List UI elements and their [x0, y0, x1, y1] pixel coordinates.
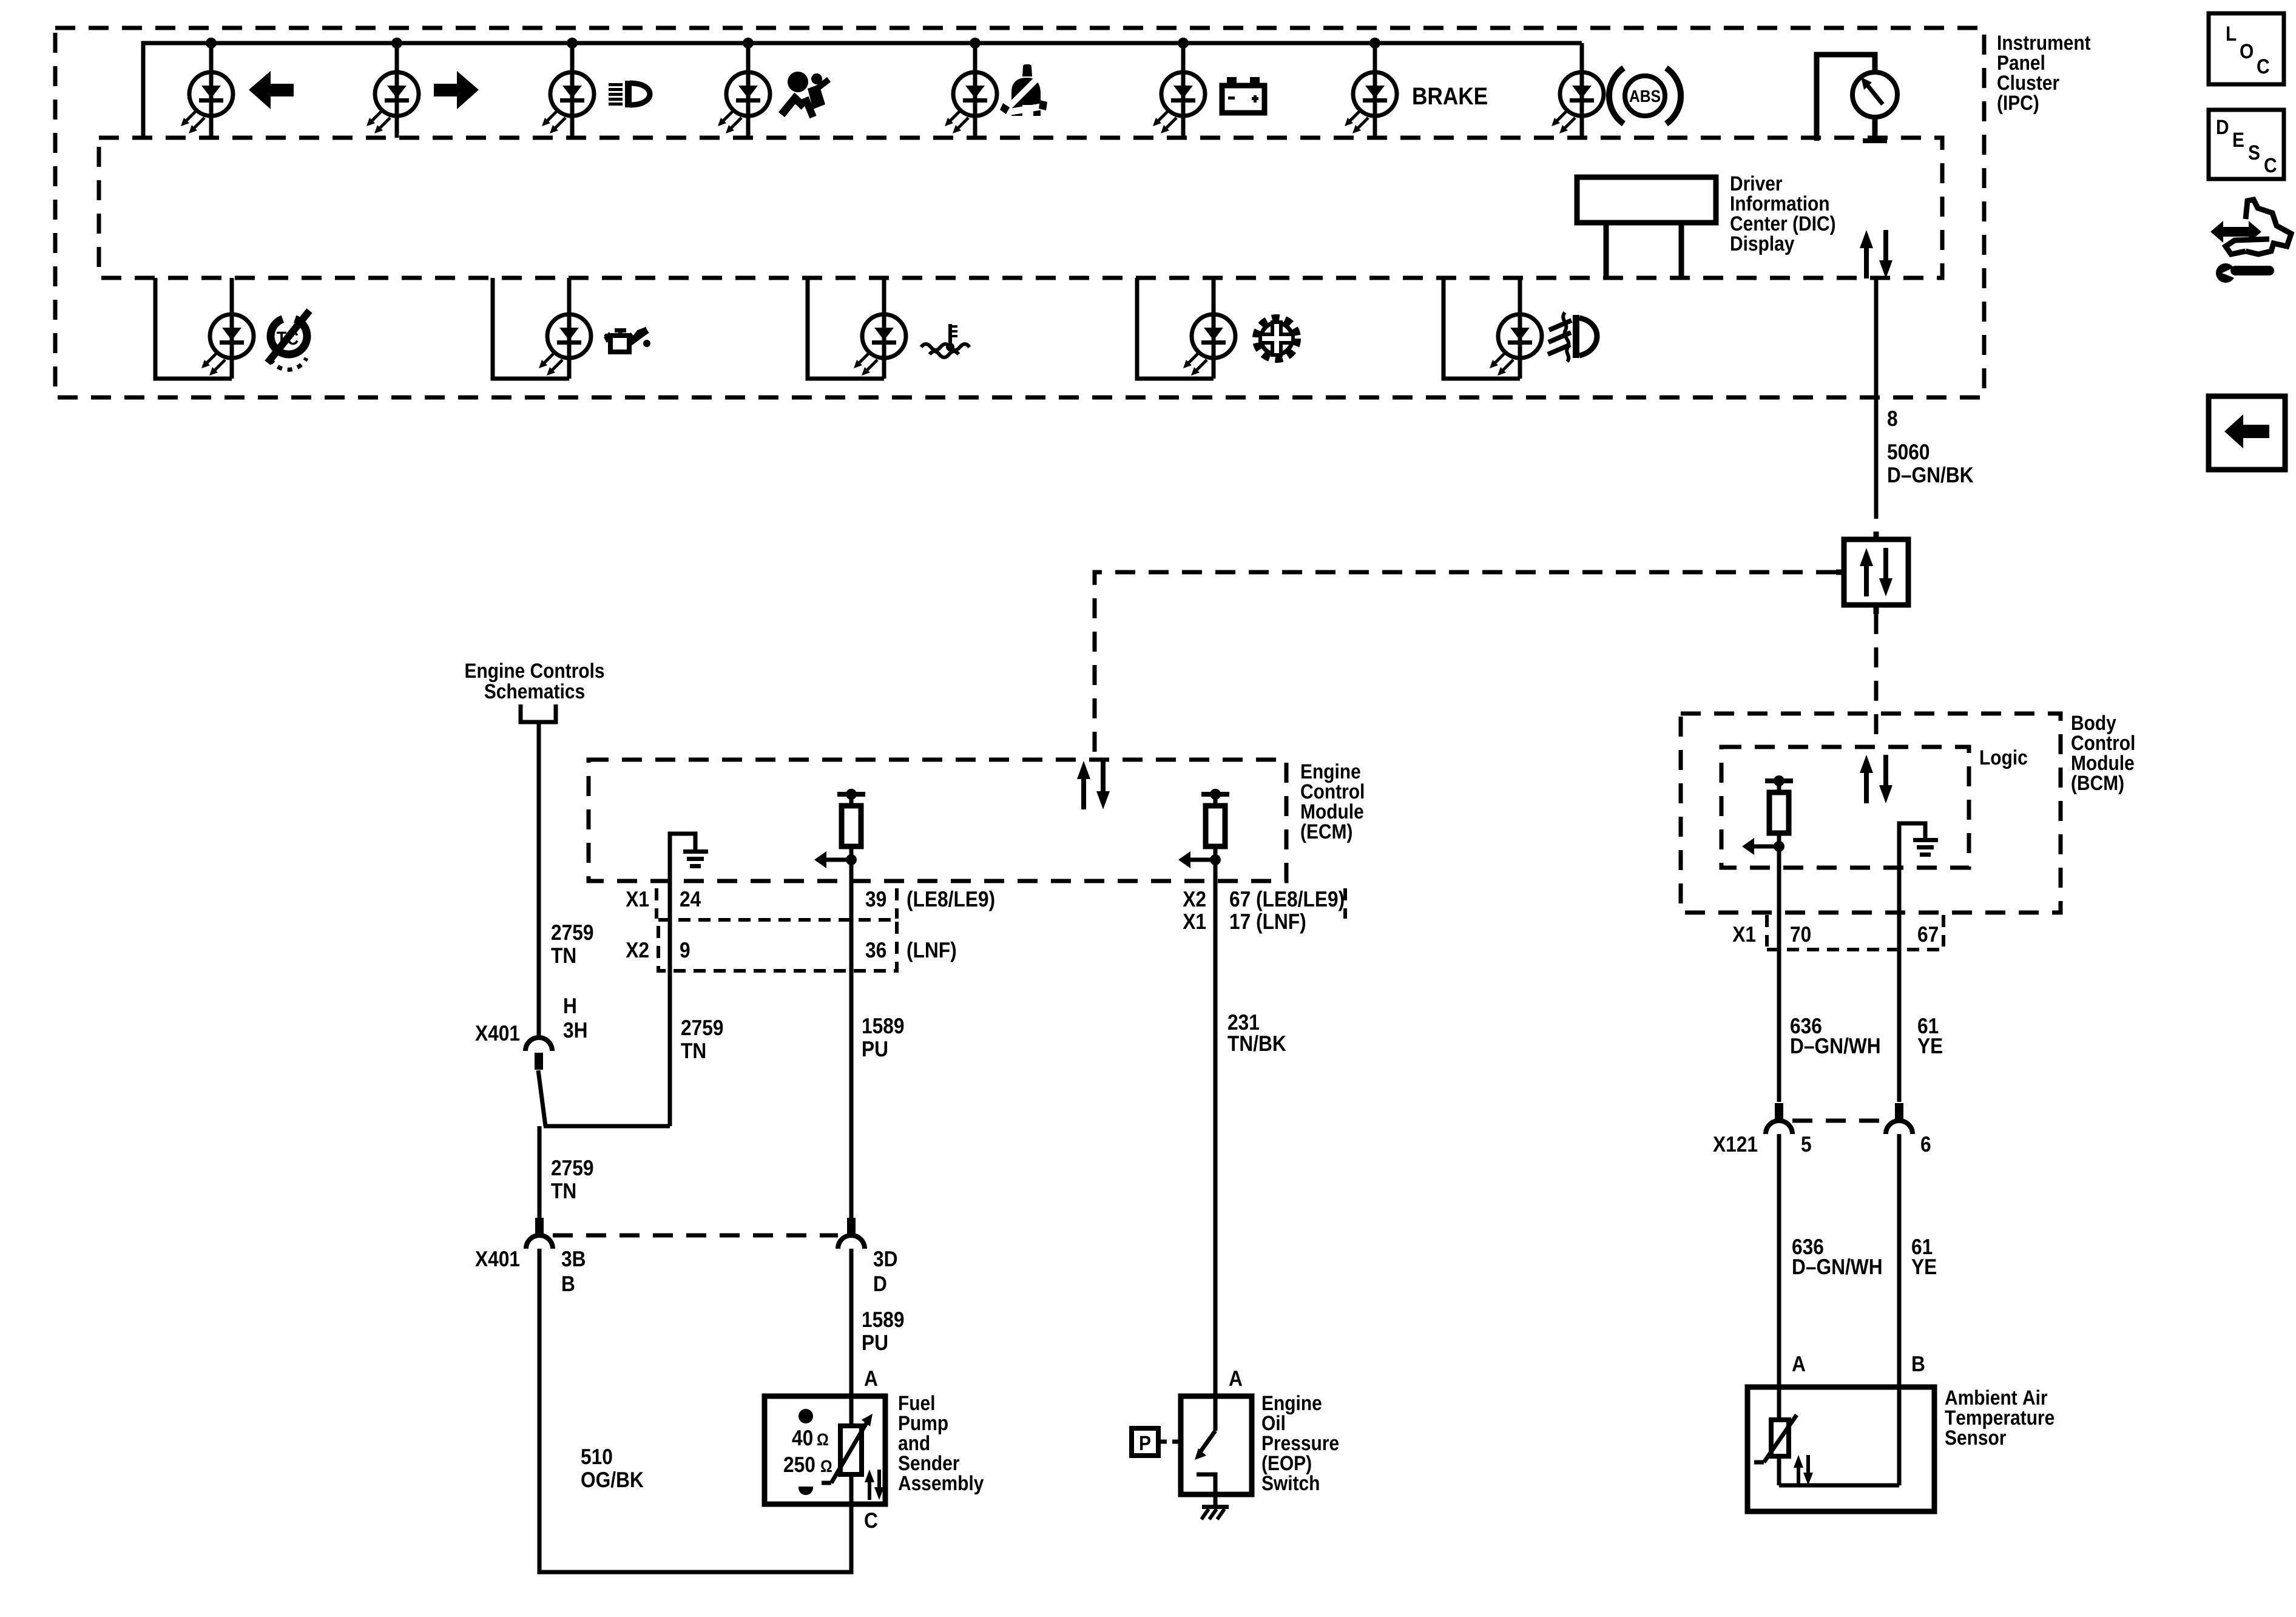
label: 1589 PU (lower)	[863, 1312, 903, 1327]
serial data arrows in IPC	[1860, 230, 1893, 279]
wire: 2759 TN down to X401 3B	[538, 1126, 542, 1218]
connector X121 pin 5	[1766, 1103, 1792, 1134]
node: bus junction dots	[206, 38, 1380, 49]
fuel pump internals	[784, 1396, 884, 1504]
label: pin A (EOP)	[1229, 1371, 1242, 1386]
LED lamp: ABS	[1551, 43, 1604, 138]
label: Engine Control Module (ECM)	[1302, 763, 1360, 783]
DIC display legs	[1604, 223, 1609, 278]
LED lamp: fog lamp	[1443, 278, 1542, 379]
LED lamp: coolant temp	[808, 278, 906, 379]
icon: seat belt person	[1000, 64, 1047, 116]
gauge (speedometer)	[1852, 72, 1897, 143]
Engine Oil Pressure switch box	[1181, 1396, 1252, 1494]
label: 61 YE (upper)	[1918, 1018, 1938, 1033]
DIC display box	[1577, 177, 1716, 223]
BCM driver: ambient air temp input	[1742, 775, 1793, 913]
ECM driver: oil pressure input	[1178, 789, 1229, 881]
LED lamp: high beam	[542, 43, 594, 138]
DIC inner dashed box	[99, 138, 1942, 278]
dashed wire: serial data to ECM	[1095, 572, 1836, 760]
label: Engine Oil Pressure (EOP) Switch	[1263, 1395, 1322, 1414]
label: pin B (sensor)	[1913, 1356, 1924, 1371]
label: Body Control Module (BCM)	[2072, 715, 2116, 734]
connector X401 pin 3B	[526, 1218, 553, 1249]
label: Engine Controls Schematics	[465, 663, 604, 682]
wire: branch to ECM ground pin	[544, 1124, 670, 1129]
Body Control Module (BCM) dashed box	[1681, 714, 2061, 913]
icon: coolant temperature	[921, 324, 970, 357]
wire: 231 TN/BK	[1214, 881, 1218, 1396]
icon: right arrow	[434, 71, 479, 109]
back arrow box	[2209, 396, 2285, 470]
EOP chassis ground	[1201, 1494, 1229, 1519]
ECM internal ground	[670, 834, 708, 881]
Instrument Panel Cluster (IPC) dashed box	[55, 28, 1984, 397]
label: Logic	[1980, 749, 2027, 769]
label BRAKE	[1413, 87, 1487, 104]
label: pin A (fuel pump)	[865, 1371, 877, 1386]
icon: TC tire	[268, 311, 309, 370]
label: 1589 PU (upper)	[863, 1018, 903, 1033]
label: X121	[1713, 1136, 1757, 1152]
LED lamp: traction control	[155, 278, 254, 379]
icon: left arrow	[249, 71, 294, 109]
label: 510 OG/BK	[581, 1449, 612, 1464]
LED lamp: seat belt	[945, 43, 997, 138]
LOC box	[2209, 13, 2284, 84]
wire: serial data from IPC pin 8	[1874, 278, 1879, 519]
Fuel Pump and Sender Assembly box	[765, 1396, 885, 1504]
label: 636 D-GN/WH (upper)	[1791, 1018, 1822, 1034]
label: Ambient Air Temperature Sensor	[1945, 1389, 2047, 1405]
ECM driver: fuel level output	[814, 789, 865, 881]
dashed wire: serial data to BCM	[1874, 614, 1879, 747]
label: pin 8 wire 5060 D-GN/BK	[1888, 411, 1897, 426]
wire: 1589 PU to fuel pump	[849, 1249, 854, 1396]
off-page connector bracket	[521, 704, 556, 722]
icon: gear with cross	[1257, 319, 1297, 359]
icon: battery	[1222, 77, 1264, 113]
BCM internal ground	[1899, 823, 1938, 913]
label: pin A (sensor)	[1792, 1356, 1805, 1371]
label: 2759 TN (lower)	[552, 1160, 593, 1175]
icon: ABS	[1609, 68, 1681, 124]
label: X401 (upper)	[475, 1025, 519, 1041]
LED lamp: airbag	[718, 43, 770, 138]
Logic dashed box	[1721, 747, 1969, 868]
connector X401 pin 3D	[838, 1218, 865, 1249]
wire: slanted joint below X401 H	[538, 1070, 545, 1126]
LED lamp: service gear	[1137, 278, 1235, 379]
label: Instrument Panel Cluster (IPC)	[1998, 36, 2090, 50]
BCM connector dashes	[1765, 915, 1769, 947]
sensor internals: thermistor	[1754, 1415, 1899, 1485]
gauge branch wire	[1817, 55, 1875, 141]
splice/serial data link box	[1836, 532, 1908, 614]
Engine Control Module (ECM) dashed box	[589, 760, 1286, 881]
serial data arrows in BCM	[1860, 755, 1893, 803]
label: 231 TN/BK	[1228, 1014, 1259, 1030]
ECM pin labels	[626, 891, 649, 906]
LED lamp: brake	[1345, 43, 1397, 138]
dashed connector line X401	[553, 1234, 838, 1238]
wire: 2759 TN from schematics	[537, 722, 541, 1039]
ECM connector dashed box row2	[658, 920, 897, 971]
wire: ECM ground 2759 TN	[668, 881, 672, 1126]
label: pin C	[865, 1513, 877, 1528]
LED lamp: right turn indicator	[366, 43, 419, 138]
wrench navigation icon	[2210, 200, 2291, 283]
icon: fog lamp	[1548, 312, 1597, 362]
LED lamp: left turn indicator	[181, 43, 233, 138]
serial data arrows in ECM	[1077, 761, 1110, 809]
label: pin 6	[1921, 1136, 1930, 1152]
label: X401 (lower)	[475, 1251, 519, 1266]
label: Driver Information Center (DIC) Display	[1731, 175, 1782, 191]
wire: 636 D-GN/WH lower	[1777, 1134, 1781, 1420]
label: 3B B	[562, 1251, 585, 1267]
wire: 61 YE upper	[1897, 913, 1902, 1102]
wire: 1589 PU from ECM driver	[849, 881, 854, 1218]
label: 2759 TN (upper)	[552, 925, 593, 940]
icon: airbag person	[782, 72, 829, 117]
Ambient Air Temperature Sensor box	[1747, 1387, 1934, 1511]
icon: headlamp with beams	[609, 81, 650, 107]
wire: top supply bus	[143, 43, 1582, 138]
connector X401 pin H	[525, 1038, 552, 1070]
label: H 3H	[564, 998, 576, 1013]
label: 3D D	[874, 1251, 897, 1267]
P pressure symbol	[1132, 1428, 1181, 1456]
icon: oil can	[604, 328, 650, 352]
EOP switch internals	[1195, 1396, 1215, 1494]
LED lamp: charge/battery	[1153, 43, 1205, 138]
wire: 61 YE lower	[1897, 1134, 1902, 1485]
label: 2759 TN (ECM side)	[681, 1020, 723, 1035]
dashed connector line X121	[1792, 1119, 1886, 1123]
label: Fuel Pump and Sender Assembly	[899, 1395, 934, 1410]
BCM pin labels	[1733, 927, 1756, 942]
label: 61 YE (lower)	[1912, 1239, 1932, 1254]
connector X121 pin 6	[1886, 1103, 1913, 1134]
label: 636 D-GN/WH (lower)	[1792, 1239, 1823, 1255]
label: pin 5	[1801, 1136, 1811, 1152]
wire: 636 D-GN/WH upper	[1777, 913, 1781, 1102]
DESC box	[2209, 110, 2284, 179]
ECM connector dashes row1	[655, 888, 658, 919]
LED lamp: oil pressure	[493, 278, 591, 379]
wire: 510 OG/BK	[539, 1249, 851, 1572]
